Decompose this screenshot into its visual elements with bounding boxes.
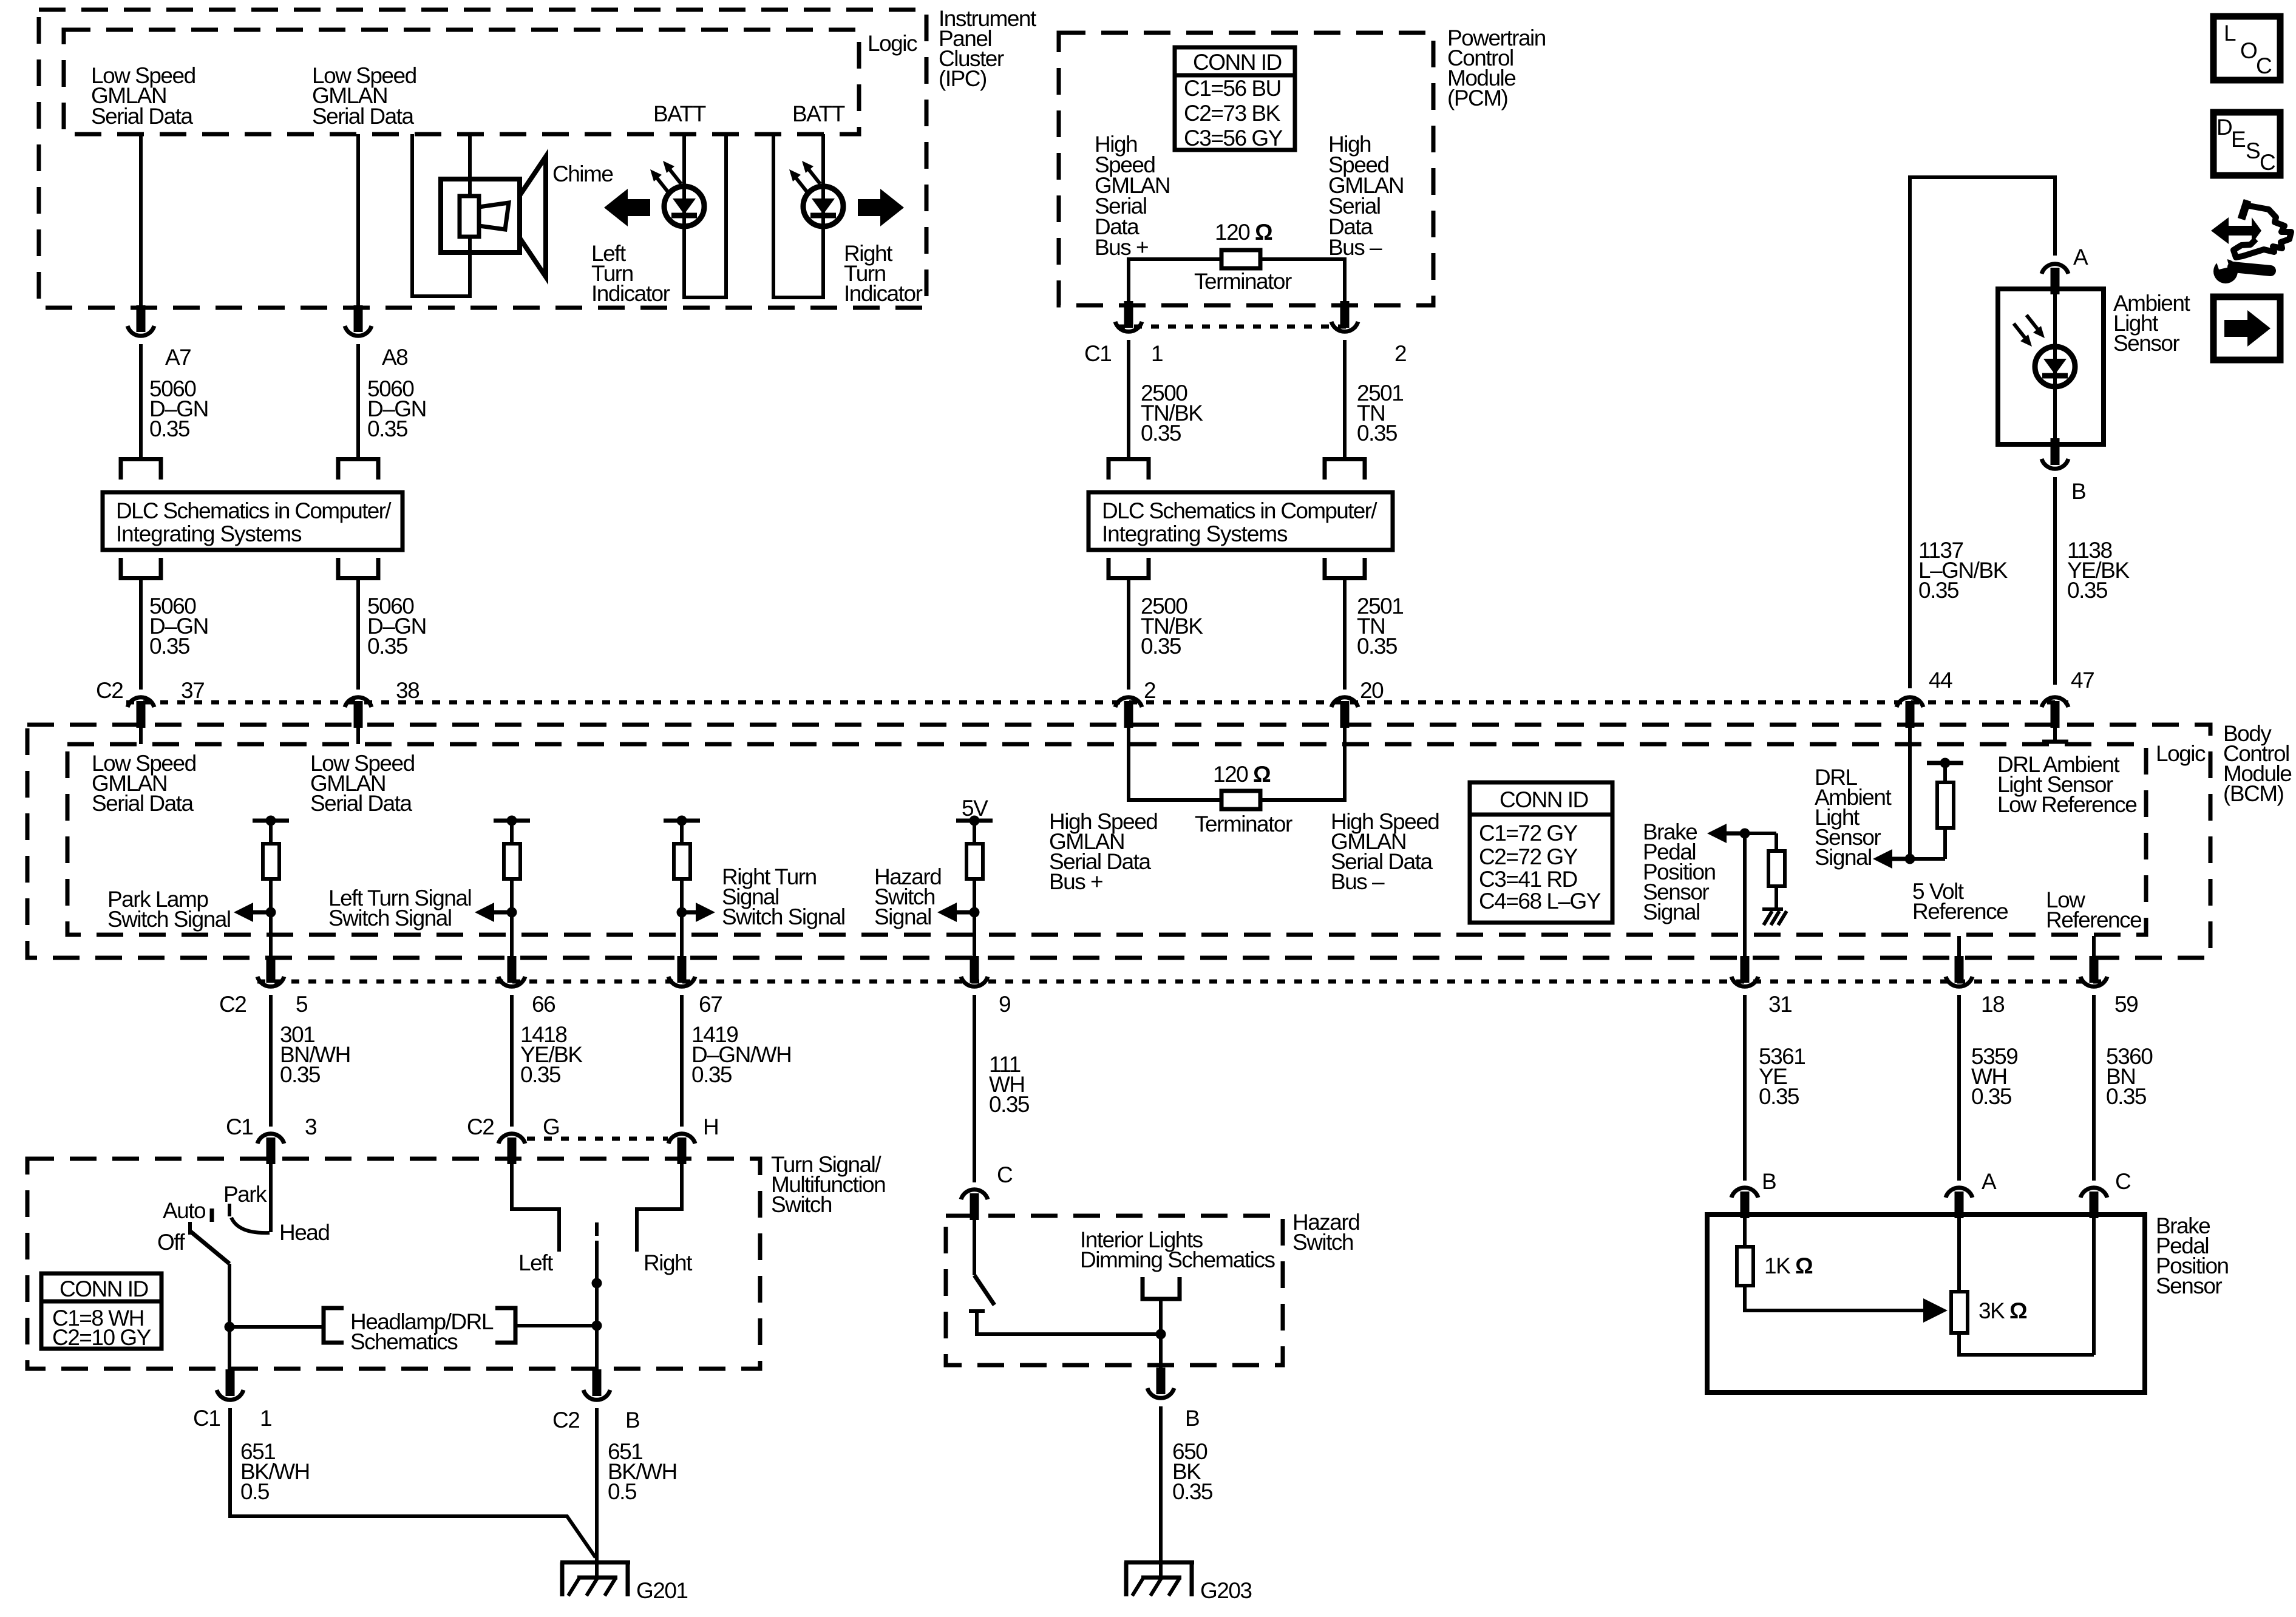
svg-text:C1: C1	[1084, 341, 1111, 366]
svg-text:C1=56 BU: C1=56 BU	[1184, 76, 1281, 101]
1K resistor	[1737, 1218, 1753, 1286]
label High Speed GMLAN Serial Data Bus + (PCM)	[1095, 132, 1170, 260]
connector pin 47 (BCM)	[2042, 697, 2068, 728]
wire label 651 BK/WH 0.5 (right)	[608, 1439, 677, 1504]
CONN ID box (switch)	[41, 1273, 161, 1350]
wire 2500 down to BCM pin 2	[1127, 580, 1130, 690]
label Right Turn Signal Switch Signal	[722, 864, 845, 929]
park lamp signal wire	[269, 879, 273, 959]
connector C1 pin 3	[257, 1134, 284, 1164]
label Body Control Module (BCM)	[2223, 721, 2291, 806]
inline connector (2500 lower staple)	[1109, 558, 1149, 578]
ground wire from C1 pin 1	[230, 1408, 596, 1558]
DRL signal arrow and junction	[1873, 849, 1945, 869]
LED1 light rays	[650, 161, 681, 192]
wire 1138 down to BCM	[2053, 477, 2057, 685]
label Low Reference	[2046, 887, 2141, 932]
label Park Lamp Switch Signal	[107, 887, 231, 932]
inline connector (A8 lower staple)	[338, 558, 378, 578]
svg-text:DLC Schematics in Computer/: DLC Schematics in Computer/	[116, 498, 392, 523]
svg-text:S: S	[2246, 138, 2260, 163]
svg-text:Signal: Signal	[874, 904, 931, 929]
svg-text:0.35: 0.35	[1971, 1084, 2012, 1109]
svg-text:Sensor: Sensor	[2113, 331, 2179, 356]
connector pin 9	[961, 956, 988, 986]
IPC box	[39, 10, 926, 308]
wire 67 down	[680, 995, 684, 1127]
svg-text:Park: Park	[223, 1182, 267, 1207]
wire through sensor	[2053, 294, 2057, 439]
inline connector (2500 upper staple)	[1109, 459, 1149, 480]
hazard 5V rail	[956, 816, 993, 826]
svg-text:0.35: 0.35	[1141, 421, 1181, 446]
svg-text:BATT: BATT	[653, 101, 706, 126]
label Hazard Switch	[1292, 1210, 1359, 1255]
svg-text:Logic: Logic	[868, 31, 917, 56]
left arrow icon	[604, 189, 650, 226]
label High Speed GMLAN Serial Data Bus - (BCM)	[1331, 809, 1439, 894]
svg-text:0.35: 0.35	[149, 416, 190, 441]
ground G201	[560, 1562, 630, 1596]
hazard pull-up resistor	[966, 821, 983, 879]
wire 18 down	[1957, 995, 1961, 1181]
wire 38 stub into logic	[356, 728, 360, 744]
svg-text:0.35: 0.35	[367, 416, 408, 441]
svg-text:G: G	[543, 1114, 559, 1139]
svg-text:Switch: Switch	[1292, 1230, 1353, 1255]
svg-text:Logic: Logic	[2156, 741, 2206, 766]
wire 37 stub into logic	[139, 728, 143, 744]
svg-text:31: 31	[1768, 992, 1792, 1017]
svg-text:Terminator: Terminator	[1195, 812, 1292, 836]
connector pin 59	[2080, 956, 2107, 986]
hazard signal arrow	[937, 903, 980, 922]
inline connector (2501 lower staple)	[1325, 558, 1365, 578]
svg-text:C1: C1	[193, 1406, 220, 1431]
svg-text:Dimming Schematics: Dimming Schematics	[1080, 1247, 1275, 1272]
svg-text:O: O	[2240, 38, 2257, 63]
connector C2 pin 5	[257, 956, 284, 986]
svg-text:C2=10 GY: C2=10 GY	[52, 1325, 151, 1350]
headlamp switch common wire	[269, 1164, 273, 1232]
turn switch wiper	[592, 1222, 602, 1371]
label 5 Volt Reference	[1912, 879, 2008, 924]
brake pedal position sensor box	[1707, 1215, 2145, 1392]
svg-text:CONN ID: CONN ID	[59, 1276, 148, 1301]
svg-text:B: B	[1185, 1406, 1199, 1431]
connector A (brake sensor)	[1946, 1188, 1972, 1218]
svg-text:A7: A7	[165, 345, 191, 370]
svg-text:C: C	[2115, 1169, 2131, 1194]
svg-text:0.5: 0.5	[608, 1479, 637, 1504]
svg-text:0.35: 0.35	[1357, 421, 1398, 446]
svg-text:C3=41 RD: C3=41 RD	[1479, 867, 1577, 892]
right turn indicator lamp circuit	[773, 134, 823, 297]
svg-text:Off: Off	[157, 1230, 185, 1255]
wire label 1419 D-GN/WH 0.35	[691, 1022, 791, 1087]
label Left Turn Signal Switch Signal	[328, 886, 471, 931]
wire A to 3K	[1957, 1218, 1961, 1292]
svg-text:Signal: Signal	[1815, 845, 1872, 870]
svg-text:Signal: Signal	[1643, 900, 1700, 924]
wire label 5060 D-GN 0.35 (38 lower)	[367, 594, 426, 659]
svg-text:120 Ω: 120 Ω	[1215, 220, 1272, 245]
svg-text:37: 37	[181, 678, 204, 703]
svg-text:C2: C2	[552, 1408, 579, 1432]
terminator resistor R (BCM 120 ohm)	[1221, 791, 1260, 809]
svg-text:Integrating Systems: Integrating Systems	[116, 521, 302, 546]
svg-text:67: 67	[699, 992, 722, 1017]
svg-text:0.35: 0.35	[1759, 1084, 1799, 1109]
wire 9 down to hazard switch	[973, 995, 976, 1182]
left turn indicator lamp circuit	[684, 134, 726, 297]
wire label 2501 TN 0.35 (lower)	[1357, 594, 1403, 659]
svg-text:C4=68 L–GY: C4=68 L–GY	[1479, 889, 1601, 914]
label High Speed GMLAN Serial Data Bus - (PCM)	[1328, 132, 1404, 260]
connector B (brake sensor)	[1731, 1188, 1758, 1218]
inline connector (A7 lower staple)	[121, 558, 161, 578]
svg-text:C: C	[2260, 150, 2275, 175]
wire A7 inside IPC	[139, 134, 143, 307]
terminator resistor R (PCM 120 ohm)	[1221, 250, 1260, 268]
left turn pull-up rail	[494, 816, 530, 826]
CONN ID box (PCM)	[1175, 47, 1295, 151]
hazard signal wire	[973, 879, 976, 959]
svg-text:0.35: 0.35	[2106, 1084, 2147, 1109]
label Low Speed GMLAN Serial Data (BCM left)	[92, 751, 196, 816]
label Brake Pedal Position Sensor	[2156, 1213, 2229, 1298]
bracket left (headlamp/DRL)	[324, 1308, 344, 1343]
svg-text:DLC Schematics in Computer/: DLC Schematics in Computer/	[1102, 498, 1377, 523]
svg-text:C1: C1	[226, 1114, 253, 1139]
switch sweep arc	[231, 1218, 270, 1233]
svg-text:Low Reference: Low Reference	[1997, 792, 2136, 817]
svg-text:5: 5	[296, 992, 308, 1017]
svg-text:C2=72 GY: C2=72 GY	[1479, 844, 1578, 869]
wire 31 down to brake sensor	[1743, 995, 1747, 1181]
wire label 5360 BN 0.35	[2106, 1044, 2153, 1109]
svg-text:66: 66	[532, 992, 555, 1017]
connector pin 31	[1731, 956, 1758, 986]
connector pin 18	[1946, 956, 1972, 986]
right turn signal wire	[680, 879, 684, 959]
svg-text:Terminator: Terminator	[1194, 269, 1292, 294]
wire A8 inside IPC	[356, 134, 360, 307]
headlamp switch lever	[191, 1232, 229, 1264]
right turn signal arrow	[677, 903, 716, 922]
connector C2 pin G	[498, 1134, 525, 1164]
wire label 2500 TN/BK 0.35 (lower)	[1141, 594, 1203, 659]
label Low Speed GMLAN Serial Data (BCM right)	[310, 751, 415, 816]
connector pin C (hazard)	[961, 1190, 988, 1220]
headlamp switch output wire	[225, 1264, 235, 1370]
wire A8 to inline connector	[356, 344, 360, 457]
svg-text:Serial Data: Serial Data	[92, 791, 194, 816]
label Brake Pedal Position Sensor Signal	[1643, 819, 1716, 924]
svg-text:Switch Signal: Switch Signal	[107, 907, 231, 932]
off contact	[188, 1222, 192, 1235]
auto contact	[210, 1209, 214, 1222]
svg-text:3: 3	[305, 1114, 316, 1139]
svg-text:C: C	[2256, 53, 2272, 78]
svg-text:G201: G201	[636, 1578, 688, 1603]
svg-text:Reference: Reference	[1912, 899, 2008, 924]
svg-text:Integrating Systems: Integrating Systems	[1102, 521, 1288, 546]
svg-text:0.35: 0.35	[520, 1062, 561, 1087]
svg-text:C3=56 GY: C3=56 GY	[1184, 126, 1283, 151]
connector C2 pin 37	[127, 697, 154, 728]
wire 2501 to inline connector	[1343, 340, 1347, 457]
svg-text:0.35: 0.35	[1357, 634, 1398, 659]
svg-text:Right: Right	[644, 1250, 693, 1275]
svg-text:(BCM): (BCM)	[2223, 781, 2284, 806]
IPC logic box	[64, 30, 859, 134]
right turn resistor	[674, 821, 690, 879]
svg-text:38: 38	[396, 678, 419, 703]
wire junction to connector B	[1159, 1334, 1163, 1369]
svg-text:18: 18	[1981, 992, 2004, 1017]
label Turn Signal/ Multifunction Switch	[771, 1152, 885, 1217]
BCM logic box	[67, 744, 2146, 935]
wire label 1138 YE/BK 0.35	[2067, 538, 2130, 603]
svg-text:Serial Data: Serial Data	[310, 791, 412, 816]
CONN ID box (BCM)	[1470, 782, 1612, 923]
svg-text:2: 2	[1144, 678, 1155, 703]
svg-text:C2: C2	[467, 1114, 494, 1139]
wire 59 inside BCM	[2092, 936, 2096, 959]
label Low Speed GMLAN Serial Data (IPC right)	[312, 63, 416, 129]
label Right Turn Indicator	[844, 241, 923, 306]
wire 1137 loop to sensor	[1910, 177, 2055, 688]
svg-text:E: E	[2231, 127, 2246, 152]
label Ambient Light Sensor	[2113, 291, 2190, 356]
connector pin 38	[345, 697, 372, 728]
svg-text:3K Ω: 3K Ω	[1978, 1298, 2027, 1323]
wire label 2501 TN 0.35 (upper)	[1357, 381, 1403, 446]
svg-text:B: B	[2071, 479, 2085, 504]
svg-text:1: 1	[1151, 341, 1163, 366]
svg-text:Auto: Auto	[163, 1198, 206, 1223]
LED right turn indicator	[803, 186, 843, 226]
svg-text:Switch Signal: Switch Signal	[722, 904, 845, 929]
svg-text:0.35: 0.35	[367, 634, 408, 659]
svg-text:Sensor: Sensor	[2156, 1273, 2222, 1298]
label DRL Ambient Light Sensor Low Reference	[1997, 752, 2136, 817]
DLC schematics box (left)	[103, 492, 402, 550]
wiper wire with arrow to 3K	[1745, 1286, 1948, 1323]
svg-text:D: D	[2216, 115, 2232, 140]
BCM bottom dotted row	[257, 980, 2108, 984]
connector C1 pin 1 (switch bottom)	[217, 1369, 243, 1400]
connector pin 66	[498, 956, 525, 986]
ground wire from C2 pin B	[595, 1408, 599, 1578]
connector pin 20 (BCM)	[1331, 697, 1358, 728]
label Hazard Switch Signal	[874, 864, 941, 929]
connector pin 2 (BCM)	[1115, 697, 1142, 728]
svg-text:9: 9	[999, 992, 1010, 1017]
PCM connector row dotted	[1117, 325, 1357, 329]
wire label 111 WH 0.35	[989, 1052, 1030, 1117]
svg-text:Reference: Reference	[2046, 907, 2141, 932]
svg-text:2: 2	[1394, 341, 1406, 366]
connector pin 2 (PCM)	[1331, 301, 1358, 331]
svg-text:0.35: 0.35	[1172, 1479, 1213, 1504]
wire 18 inside BCM	[1957, 936, 1961, 959]
svg-text:C1=72 GY: C1=72 GY	[1479, 821, 1578, 846]
svg-text:0.35: 0.35	[691, 1062, 732, 1087]
wire label 2500 TN/BK 0.35 (upper)	[1141, 381, 1203, 446]
label DLC Schematics in Computer / Integrating Systems (left)	[116, 498, 392, 546]
BCM terminator wires	[1129, 728, 1345, 800]
wire 37 down to BCM	[139, 580, 143, 690]
connector A7	[127, 305, 154, 336]
bracket right (headlamp/DRL)	[495, 1308, 515, 1343]
multifunction switch box	[27, 1159, 760, 1369]
svg-text:Head: Head	[279, 1220, 329, 1245]
hazard switch box	[946, 1216, 1283, 1365]
svg-text:B: B	[625, 1408, 639, 1432]
svg-text:0.35: 0.35	[2067, 578, 2108, 603]
svg-text:BATT: BATT	[792, 101, 845, 126]
ground wire from hazard B	[1159, 1406, 1163, 1578]
DESC icon box	[2213, 112, 2280, 175]
connector pin H	[668, 1134, 695, 1164]
svg-text:0.35: 0.35	[149, 634, 190, 659]
connector B (ambient light sensor)	[2042, 438, 2068, 469]
hazard switch blade	[974, 1275, 994, 1305]
svg-text:1K Ω: 1K Ω	[1764, 1253, 1813, 1278]
inline connector (A8 upper staple)	[338, 459, 378, 480]
label Interior Lights Dimming Schematics	[1080, 1227, 1275, 1272]
wire label 5060 D-GN 0.35 (37 lower)	[149, 594, 208, 659]
park lamp resistor	[263, 821, 279, 879]
wire 31 inside BCM	[1743, 833, 1747, 959]
inline connector (A7 upper staple)	[121, 459, 161, 480]
PCM box	[1059, 33, 1433, 305]
chassis ground (BCM internal)	[1762, 909, 1787, 925]
wire 2500 to inline connector	[1127, 340, 1130, 457]
svg-text:0.35: 0.35	[989, 1092, 1030, 1117]
DRL rail bar	[1927, 758, 1963, 768]
label Low Speed GMLAN Serial Data (IPC left)	[91, 63, 195, 129]
wire label 301 BN/WH 0.35	[280, 1022, 350, 1087]
connector C2 pin B (switch bottom)	[583, 1369, 610, 1400]
svg-text:A: A	[1982, 1169, 1997, 1194]
svg-text:H: H	[703, 1114, 718, 1139]
svg-text:Bus +: Bus +	[1049, 869, 1102, 894]
left turn signal wire	[510, 879, 514, 959]
svg-text:A: A	[2073, 245, 2088, 269]
ambient light sensor box	[1998, 289, 2104, 444]
svg-text:C: C	[997, 1162, 1013, 1187]
svg-text:Left: Left	[518, 1250, 554, 1275]
svg-text:Switch: Switch	[771, 1192, 832, 1217]
park lamp signal arrow	[234, 903, 276, 922]
chime speaker	[441, 157, 546, 277]
ground G203	[1124, 1562, 1194, 1596]
svg-text:A8: A8	[382, 345, 407, 370]
svg-text:44: 44	[1929, 668, 1952, 693]
svg-text:Bus –: Bus –	[1331, 869, 1385, 894]
terminator wire (PCM)	[1129, 259, 1345, 305]
svg-text:120 Ω: 120 Ω	[1213, 762, 1271, 787]
brake pull-down resistor	[1768, 833, 1785, 909]
svg-text:20: 20	[1360, 678, 1384, 703]
svg-text:Indicator: Indicator	[844, 281, 923, 306]
wire 44 inside BCM	[1908, 728, 1912, 859]
wire label 5060 D-GN 0.35 (A7 upper)	[149, 376, 208, 441]
svg-text:(IPC): (IPC)	[939, 66, 987, 91]
wire label 650 BK 0.35	[1172, 1439, 1213, 1504]
svg-text:C2: C2	[219, 992, 246, 1017]
svg-text:(PCM): (PCM)	[1447, 86, 1508, 110]
label DLC Schematics in Computer / Integrating Systems (right)	[1102, 498, 1377, 546]
turn switch right contact wire	[637, 1164, 682, 1252]
inline connector (2501 upper staple)	[1325, 459, 1365, 480]
wire label 651 BK/WH 0.5 (left)	[240, 1439, 310, 1504]
svg-text:CONN ID: CONN ID	[1500, 787, 1588, 812]
double-arrow hand wrench icon	[2211, 200, 2291, 283]
label High Speed GMLAN Serial Data Bus + (BCM)	[1049, 809, 1157, 894]
svg-text:0.35: 0.35	[1141, 634, 1181, 659]
wire label 1418 YE/BK 0.35	[520, 1022, 583, 1087]
wire A7 to inline connector	[139, 344, 143, 457]
svg-text:L: L	[2224, 21, 2236, 46]
label Instrument Panel Cluster (IPC)	[939, 6, 1037, 91]
connector A (ambient light sensor)	[2042, 264, 2068, 294]
svg-text:C2: C2	[96, 678, 123, 703]
wire 38 down to BCM	[356, 580, 360, 690]
label Powertrain Control Module (PCM)	[1447, 25, 1546, 110]
svg-text:Switch Signal: Switch Signal	[328, 906, 452, 931]
connector A8	[345, 305, 372, 336]
wire 2501 down to BCM pin 20	[1343, 580, 1347, 690]
left turn resistor	[504, 821, 520, 879]
svg-text:G203: G203	[1200, 1578, 1252, 1603]
svg-text:B: B	[1762, 1169, 1776, 1194]
label Left Turn Indicator	[591, 241, 670, 306]
wire label 5361 YE 0.35	[1759, 1044, 1805, 1109]
svg-text:CONN ID: CONN ID	[1193, 50, 1282, 75]
wire label 5359 WH 0.35	[1971, 1044, 2017, 1109]
wire label 1137 L-GN/BK 0.35	[1918, 538, 2008, 603]
brake pedal signal arrow and junction	[1707, 824, 1776, 843]
connector pin 67	[668, 956, 695, 986]
hazard wire into switch	[973, 1220, 976, 1275]
LOC icon box	[2213, 16, 2280, 80]
wire 66 down	[510, 995, 514, 1127]
DRL pull-up resistor	[1937, 763, 1954, 859]
chime circuit wires	[412, 134, 470, 296]
label DRL Ambient Light Sensor Signal	[1815, 765, 1892, 870]
BCM box	[27, 725, 2210, 958]
right turn pull-up rail	[664, 816, 700, 826]
wire 47 stub into logic	[2042, 728, 2068, 742]
svg-text:0.35: 0.35	[1918, 578, 1959, 603]
park lamp pull-up rail	[253, 816, 289, 826]
connector B (hazard bottom)	[1147, 1368, 1174, 1398]
svg-text:0.5: 0.5	[240, 1479, 270, 1504]
svg-text:Bus +: Bus +	[1095, 235, 1148, 260]
connector C1 pin 1 (PCM)	[1115, 301, 1142, 331]
wire label 5060 D-GN 0.35 (A8 upper)	[367, 376, 426, 441]
BCM top dotted row	[126, 700, 2068, 705]
DLC schematics box (right)	[1089, 492, 1393, 550]
svg-text:Bus –: Bus –	[1328, 235, 1382, 260]
sensor light rays (incoming)	[2014, 315, 2045, 347]
svg-text:Serial Data: Serial Data	[312, 104, 414, 129]
3K resistor	[1951, 1292, 1968, 1333]
